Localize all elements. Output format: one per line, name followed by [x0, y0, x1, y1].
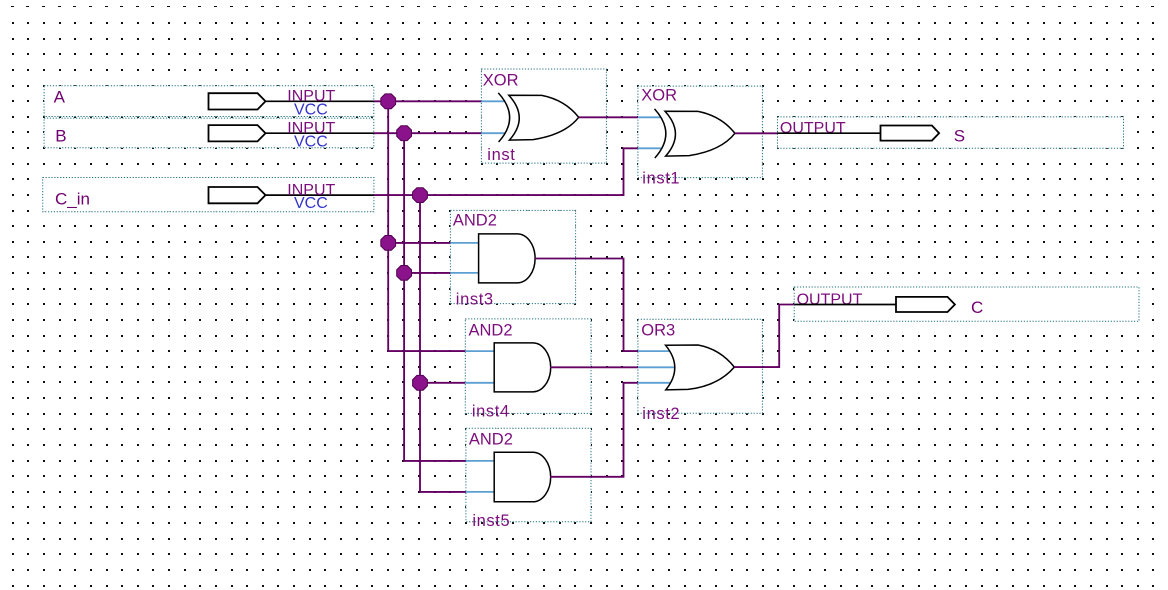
xor back arc inst1 — [655, 109, 666, 158]
wire XOR1.out to XOR2.in1 — [579, 116, 638, 118]
pin stub inst.in1 — [481, 100, 505, 102]
wire C_in vertical drop — [420, 195, 466, 492]
svg-text:XOR: XOR — [641, 87, 677, 105]
wire net C_in (pin C_in to XOR2.in2 and down to AND inst5.in2) — [374, 148, 638, 492]
and body inst3 — [479, 234, 536, 283]
node C_in-inst4 junction — [413, 375, 428, 390]
svg-text:C: C — [971, 298, 983, 317]
output pin symbol S — [881, 126, 940, 141]
wire B to AND inst3.in2 — [404, 272, 450, 274]
wire C_in horizontal — [374, 148, 638, 195]
pin stub inst4.in1 — [465, 350, 495, 352]
wire inst5.out to OR3.in3 — [550, 383, 638, 477]
xor gate U1 (inst) — [481, 69, 606, 164]
svg-text:AND2: AND2 — [469, 322, 513, 340]
wire B horizontal — [374, 132, 481, 134]
xor gate U2 (inst1) — [638, 86, 763, 187]
wire (black pin lead C) — [794, 304, 896, 306]
pin stub inst2.in1 — [638, 350, 671, 352]
and gate inst3 — [450, 210, 575, 308]
pin stub inst3.in2 — [450, 272, 479, 274]
node A-inst3 junction — [381, 236, 396, 251]
node C_in junction — [413, 188, 428, 203]
xor body inst1 — [665, 111, 735, 156]
svg-text:OR3: OR3 — [641, 321, 675, 339]
svg-text:inst5: inst5 — [472, 512, 510, 530]
svg-text:inst3: inst3 — [456, 291, 494, 309]
wire XOR2.out to output S — [735, 132, 778, 134]
wire inst3.out to OR3.in1 — [535, 259, 638, 352]
svg-text:inst2: inst2 — [642, 405, 680, 423]
svg-text:AND2: AND2 — [469, 430, 513, 448]
wire net A (pin A to XOR1.in1 and down to AND inst4) — [374, 94, 481, 351]
pin stub inst5.in2 — [466, 491, 495, 493]
pin stub inst1.in2 — [638, 147, 661, 149]
node A junction — [381, 94, 396, 109]
or gate inst2 (OR3) — [638, 319, 763, 423]
wire (black pin lead S) — [778, 132, 882, 134]
svg-text:inst4: inst4 — [472, 402, 510, 420]
input pin symbol B — [209, 125, 266, 141]
and body inst5 — [494, 452, 550, 502]
svg-text:C_in: C_in — [55, 190, 90, 209]
pin stub inst2.in2 — [638, 366, 675, 368]
wire A to AND inst3.in1 — [388, 242, 450, 244]
output pin C — [794, 287, 1139, 321]
input pin B — [44, 118, 374, 150]
and gate inst5 — [466, 428, 591, 530]
wire inst4.out to OR3.in2 — [550, 366, 638, 368]
svg-text:A: A — [54, 88, 66, 107]
pin stub inst5.in1 — [466, 460, 495, 462]
or body inst2 — [666, 345, 735, 390]
svg-text:S: S — [954, 127, 965, 146]
input pin symbol C_in — [209, 187, 266, 203]
node B junction — [397, 126, 412, 141]
wire (black pin lead C_in) — [265, 194, 375, 196]
pin stub inst.in2 — [481, 132, 505, 134]
wire A vertical drop — [388, 101, 465, 351]
svg-text:inst1: inst1 — [642, 169, 680, 187]
output pin S — [778, 117, 1124, 148]
pin stub inst2.in3 — [638, 382, 671, 384]
xor back arc inst — [498, 93, 509, 142]
and gate inst4 — [465, 319, 591, 420]
output pin symbol C — [896, 297, 955, 312]
wire A horizontal — [374, 100, 481, 102]
svg-text:XOR: XOR — [483, 71, 519, 89]
svg-text:VCC: VCC — [294, 195, 328, 212]
input pin symbol A — [209, 93, 266, 109]
wire net B (pin B to XOR1.in2 and down to AND inst5) — [374, 126, 481, 461]
svg-text:OUTPUT: OUTPUT — [780, 120, 846, 137]
pin stub inst3.in1 — [450, 242, 479, 244]
pin stub inst1.in1 — [638, 116, 661, 118]
wire OR3.out to output C — [734, 305, 794, 368]
xor body inst — [509, 95, 579, 140]
input pin C_in — [43, 178, 374, 213]
svg-text:VCC: VCC — [294, 133, 328, 150]
pin stub inst4.in2 — [465, 382, 495, 384]
wire (black pin lead B) — [265, 132, 375, 134]
wire B vertical drop — [404, 133, 466, 461]
svg-text:B: B — [55, 127, 66, 146]
svg-text:AND2: AND2 — [453, 211, 497, 229]
input pin A — [44, 86, 374, 119]
svg-text:VCC: VCC — [294, 101, 328, 118]
wire (black pin lead A) — [265, 100, 375, 102]
node B-inst3 junction — [397, 266, 412, 281]
and body inst4 — [494, 343, 550, 392]
svg-text:inst: inst — [487, 146, 515, 164]
svg-text:OUTPUT: OUTPUT — [797, 291, 863, 308]
wire C_in to AND inst4.in2 — [420, 382, 465, 384]
